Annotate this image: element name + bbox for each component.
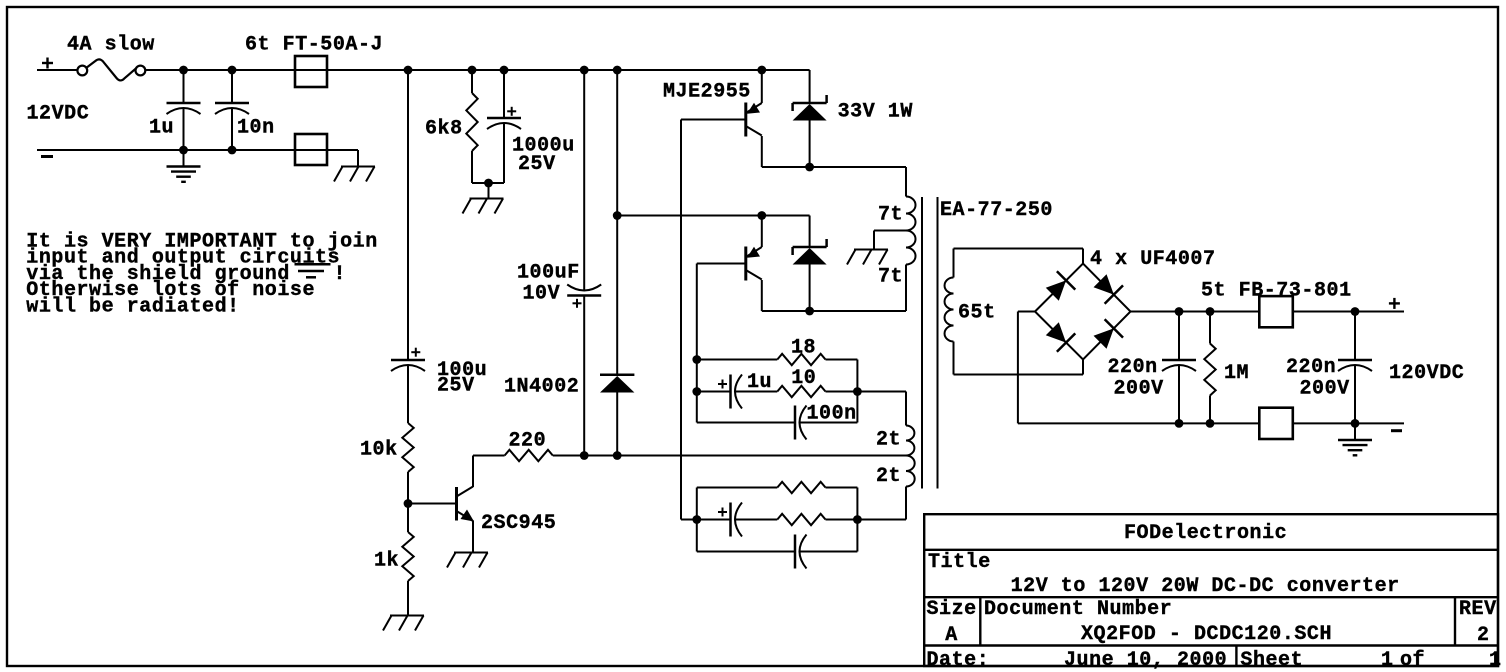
- node - input terminal: [41, 155, 53, 158]
- transistor Q3 2SC945: [455, 487, 458, 521]
- wire: [905, 167, 907, 197]
- svg-text:7t: 7t: [878, 266, 903, 289]
- svg-text:Size: Size: [927, 598, 977, 621]
- ground chassis: [390, 615, 424, 617]
- wire: [762, 310, 906, 312]
- resistor 18: [777, 354, 825, 365]
- node junction: [692, 387, 701, 396]
- wire: [37, 69, 77, 71]
- wire: [616, 70, 618, 375]
- node junction: [805, 163, 814, 172]
- capacitor 1000u 25V: [503, 70, 505, 118]
- svg-text:EA-77-250: EA-77-250: [940, 199, 1053, 222]
- transistor Q1 MJE2955: [681, 119, 746, 121]
- inductor feedback 2t lower: [906, 456, 915, 487]
- svg-text:18: 18: [791, 336, 816, 359]
- node junction: [228, 146, 237, 155]
- svg-text:REV: REV: [1459, 598, 1497, 621]
- wire: [857, 391, 906, 393]
- diode bridge 4 x UF4007: [1035, 264, 1131, 360]
- wire: [1293, 311, 1404, 313]
- capacitor 220n 200V left: [1178, 312, 1180, 361]
- title block: [924, 514, 1498, 666]
- ground chassis: [341, 166, 375, 168]
- svg-text:6t FT-50A-J: 6t FT-50A-J: [245, 34, 383, 57]
- node junction: [484, 179, 493, 188]
- bridge diode D4 lower-right: [1091, 319, 1123, 351]
- ground shield glyph in note: [295, 263, 331, 266]
- svg-text:10V: 10V: [523, 283, 561, 306]
- wire: [697, 391, 731, 393]
- bridge diode D1 upper-left: [1043, 271, 1075, 303]
- wire: [856, 488, 858, 552]
- wire: [583, 296, 585, 456]
- svg-text:1: 1: [1381, 649, 1394, 672]
- wire: [905, 487, 907, 520]
- svg-text:4A slow: 4A slow: [67, 34, 155, 57]
- wire: [408, 503, 457, 505]
- svg-text:1: 1: [1489, 649, 1502, 672]
- node junction: [757, 66, 766, 75]
- svg-text:4 x UF4007: 4 x UF4007: [1090, 248, 1216, 271]
- node + output terminal: [1389, 302, 1400, 304]
- wire: [407, 70, 409, 360]
- inductor primary 7t upper: [906, 197, 916, 231]
- node junction: [1206, 307, 1215, 316]
- node junction: [404, 499, 413, 508]
- capacitor 1u: [183, 70, 185, 103]
- svg-text:65t: 65t: [958, 302, 996, 325]
- wire: [697, 487, 778, 489]
- svg-text:12VDC: 12VDC: [27, 103, 90, 126]
- node junction: [580, 451, 589, 460]
- node junction: [228, 66, 237, 75]
- ground earth: [183, 150, 185, 166]
- svg-text:25V: 25V: [437, 374, 475, 397]
- resistor 6k8: [471, 70, 473, 93]
- resistor snubber lower 2: [777, 514, 825, 525]
- svg-text:7t: 7t: [878, 204, 903, 227]
- svg-text:2t: 2t: [876, 429, 901, 452]
- wire: [37, 149, 358, 151]
- svg-text:1M: 1M: [1224, 362, 1249, 385]
- zener diode 33V 1W upper: [809, 70, 811, 103]
- ferrite bead FB-73-801 bottom: [1259, 408, 1293, 439]
- svg-text:25V: 25V: [518, 153, 556, 176]
- wire: [472, 182, 504, 184]
- svg-text:of: of: [1400, 649, 1425, 672]
- capacitor 220n 200V right: [1354, 312, 1356, 361]
- svg-text:FODelectronic: FODelectronic: [1124, 522, 1287, 545]
- node junction: [692, 355, 701, 364]
- svg-text:220n: 220n: [1286, 356, 1336, 379]
- node junction: [613, 451, 622, 460]
- svg-text:2t: 2t: [876, 465, 901, 488]
- node junction: [500, 66, 509, 75]
- wire: [809, 216, 811, 248]
- svg-text:1u: 1u: [149, 117, 174, 140]
- wire: [697, 422, 795, 424]
- wire: [357, 150, 359, 167]
- svg-text:2SC945: 2SC945: [481, 512, 556, 535]
- wire: [617, 215, 809, 217]
- wire: [407, 581, 409, 616]
- node junction: [179, 66, 188, 75]
- svg-text:June 10, 2000: June 10, 2000: [1064, 649, 1227, 672]
- wire: [146, 69, 810, 71]
- wire: [905, 265, 907, 312]
- svg-text:12V to 120V 20W DC-DC converte: 12V to 120V 20W DC-DC converter: [1011, 575, 1400, 598]
- wire: [696, 488, 698, 552]
- svg-text:Title: Title: [928, 551, 991, 574]
- svg-text:33V 1W: 33V 1W: [838, 101, 913, 124]
- capacitor snubber lower: [794, 535, 797, 569]
- ground earth output: [1354, 423, 1356, 439]
- svg-text:120VDC: 120VDC: [1389, 362, 1464, 385]
- ferrite bead 5t FB-73-801 top: [1259, 296, 1293, 327]
- svg-text:2: 2: [1477, 624, 1490, 647]
- bridge diode D2 upper-right: [1091, 272, 1123, 304]
- transformer core EA-77-250: [921, 197, 923, 489]
- ground chassis: [470, 198, 504, 200]
- node junction: [853, 387, 862, 396]
- svg-text:!: !: [334, 263, 347, 286]
- wire: [583, 70, 585, 290]
- svg-text:1N4002: 1N4002: [504, 375, 579, 398]
- svg-text:220: 220: [509, 430, 547, 453]
- wire: [553, 455, 906, 457]
- svg-text:10n: 10n: [237, 117, 275, 140]
- capacitor 100n: [794, 406, 797, 440]
- resistor 1M: [1209, 312, 1211, 344]
- svg-text:200V: 200V: [1114, 378, 1164, 401]
- node junction: [1206, 419, 1215, 428]
- wire: [696, 264, 698, 360]
- capacitor 100u 25V: [411, 351, 420, 353]
- wire: [762, 166, 906, 168]
- wire: [826, 519, 858, 521]
- node junction: [1175, 307, 1184, 316]
- wire: [696, 360, 698, 423]
- node junction: [1351, 307, 1360, 316]
- diode 1N4002: [600, 373, 634, 376]
- capacitor 10n: [231, 70, 233, 103]
- inductor feedback 2t upper: [906, 426, 914, 456]
- capacitor 1u snubber upper: [729, 375, 732, 409]
- resistor 1k: [402, 532, 413, 581]
- ground chassis: [454, 552, 488, 554]
- svg-text:A: A: [945, 624, 958, 647]
- capacitor 100uF 10V: [567, 294, 601, 297]
- node junction: [853, 515, 862, 524]
- svg-text:6k8: 6k8: [425, 118, 463, 141]
- svg-text:Sheet: Sheet: [1240, 649, 1303, 672]
- svg-text:200V: 200V: [1300, 378, 1350, 401]
- svg-text:10k: 10k: [360, 439, 398, 462]
- ferrite bead 6t FT-50A-J bottom: [295, 134, 327, 165]
- node junction: [613, 66, 622, 75]
- bridge diode D3 lower-left: [1043, 320, 1075, 352]
- wire: [856, 360, 858, 423]
- svg-text:XQ2FOD - DCDC120.SCH: XQ2FOD - DCDC120.SCH: [1081, 623, 1332, 646]
- wire: [1018, 311, 1035, 313]
- wire: [954, 374, 1084, 376]
- wire: [735, 391, 777, 393]
- wire: [680, 120, 682, 520]
- svg-text:MJE2955: MJE2955: [663, 81, 751, 104]
- wire: [826, 359, 858, 361]
- wire: [1131, 311, 1260, 313]
- wire: [826, 487, 858, 489]
- wire: [473, 455, 505, 457]
- wire: [874, 230, 906, 232]
- inductor primary 7t lower: [906, 231, 916, 265]
- node junction: [580, 66, 589, 75]
- svg-text:5t FB-73-801: 5t FB-73-801: [1201, 280, 1352, 303]
- wire: [800, 551, 858, 553]
- wire: [826, 391, 858, 393]
- node junction: [757, 211, 766, 220]
- svg-text:will be radiated!: will be radiated!: [26, 295, 239, 318]
- inductor secondary 65t: [953, 249, 955, 278]
- node + input terminal: [42, 62, 53, 64]
- ground chassis: [854, 249, 888, 251]
- svg-text:10: 10: [791, 367, 816, 390]
- svg-text:220n: 220n: [1108, 356, 1158, 379]
- node junction: [613, 211, 622, 220]
- ferrite bead 6t FT-50A-J top: [295, 56, 327, 87]
- fuse 4A slow: [77, 66, 87, 76]
- wire: [735, 519, 777, 521]
- wire: [488, 183, 490, 199]
- resistor 220: [505, 450, 553, 461]
- svg-text:100uF: 100uF: [517, 261, 580, 284]
- wire: [697, 359, 778, 361]
- node junction: [468, 66, 477, 75]
- resistor 10k: [402, 423, 413, 472]
- node junction: [1175, 419, 1184, 428]
- node junction: [805, 307, 814, 316]
- node junction: [1351, 419, 1360, 428]
- capacitor snubber electrolytic lower: [729, 503, 732, 537]
- wire: [800, 422, 858, 424]
- zener diode 33V 1W lower: [793, 246, 827, 249]
- wire: [407, 472, 409, 532]
- svg-text:Document Number: Document Number: [984, 598, 1172, 621]
- resistor 10: [777, 386, 825, 397]
- node junction: [179, 146, 188, 155]
- svg-text:1k: 1k: [374, 550, 399, 573]
- wire: [697, 551, 795, 553]
- resistor snubber lower 1: [777, 482, 825, 493]
- wire: [1293, 422, 1404, 424]
- node junction: [692, 515, 701, 524]
- svg-text:Date:: Date:: [927, 649, 990, 672]
- node - output terminal: [1391, 429, 1402, 432]
- wire: [697, 519, 731, 521]
- wire: [954, 248, 1084, 250]
- transistor Q2 MJE2955: [697, 263, 746, 265]
- node junction: [404, 66, 413, 75]
